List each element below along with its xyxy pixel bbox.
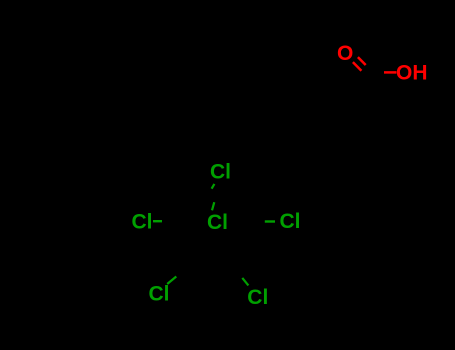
svg-text:Cl: Cl — [149, 282, 170, 305]
svg-text:Cl: Cl — [132, 211, 153, 234]
svg-text:Cl: Cl — [210, 161, 231, 184]
svg-text:Cl: Cl — [280, 210, 301, 233]
svg-text:Cl: Cl — [207, 211, 228, 234]
svg-text:O: O — [337, 42, 353, 65]
svg-text:Cl: Cl — [247, 286, 268, 309]
svg-text:OH: OH — [396, 61, 428, 84]
